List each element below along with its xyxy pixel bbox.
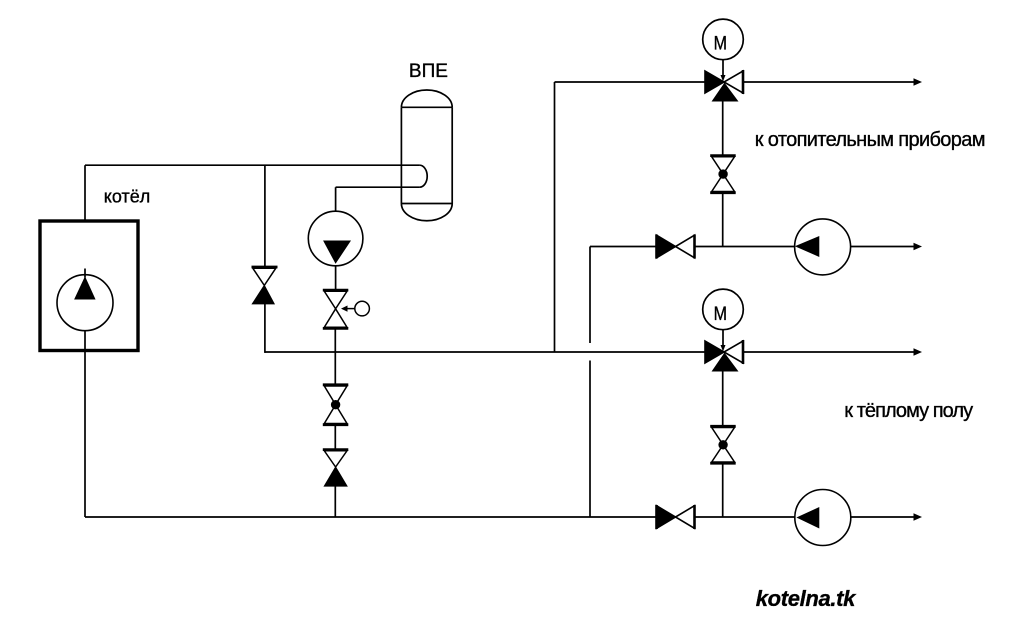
wire: main supply top pipe from boiler to vessel — [85, 164, 420, 166]
pump P3 (circle) — [795, 219, 851, 275]
wire: bottom return row y=517 — [85, 516, 657, 518]
wire: pump branch riser from hook to pump P2 — [335, 187, 337, 211]
balance valve BV2 dot — [718, 440, 727, 449]
wire: branch riser x=265 lower — [264, 304, 266, 353]
pump P4 (circle) — [795, 490, 851, 546]
three-way valve TWV1 right white triangle — [724, 71, 743, 93]
three-way valve TWV2 left black triangle — [705, 341, 724, 363]
boiler "котёл" outline — [40, 221, 138, 351]
arrow head row y=246.5 — [914, 243, 923, 251]
wire: boiler top riser — [84, 165, 86, 220]
wire: riser x=335 from valve through row-352 crossing to dot valve — [334, 328, 336, 384]
check valve CV2 top bar — [323, 448, 349, 451]
three-way valve TWV1 bottom black triangle — [713, 84, 738, 102]
wire: riser from BV2 to bottom row — [722, 463, 724, 517]
motor actuator M1 circle — [703, 19, 744, 60]
wire: riser x=335 to bottom return row — [334, 486, 336, 517]
shutoff valve SV1 dot — [331, 400, 340, 409]
shutoff valve SV3 right bar — [693, 505, 696, 529]
wire: M1 stem — [722, 60, 724, 76]
wire: riser x=554.5 connecting row 352 to top row 82 — [554, 82, 556, 352]
svg-text:ВПЕ: ВПЕ — [409, 61, 448, 82]
three-way valve TWV2 right white triangle — [724, 341, 743, 363]
shutoff valve SV2 black left triangle — [657, 235, 676, 258]
motor actuator M2 circle — [703, 289, 744, 330]
shutoff valve SV3 black left triangle — [657, 506, 676, 529]
regulating valve RV1 bottom bar — [323, 327, 349, 330]
svg-text:kotelna.tk: kotelna.tk — [756, 586, 857, 611]
wire: return row y=246.5 — [590, 246, 657, 248]
check valve CV1 top bar — [252, 266, 278, 269]
regulating valve RV1 actuator circle — [355, 301, 370, 316]
balance valve BV2 lower white triangle — [712, 445, 735, 462]
wire: riser below TWV1 to balance valve BV1 — [722, 101, 724, 156]
regulating valve RV1 top bar — [323, 289, 349, 292]
wire: vessel connection hook (u-turn inside vessel) — [420, 165, 428, 187]
wire: riser x=590 from row 246.5 down (upper segment, gap at row 352) — [589, 247, 591, 344]
check valve CV1 black triangle (up) — [252, 285, 274, 304]
pump P2 (circle) — [308, 211, 363, 266]
balance valve BV2 bottom bar — [710, 462, 736, 465]
pump P4 impeller triangle (left) — [798, 508, 819, 528]
shutoff valve SV1 bottom bar — [323, 423, 349, 426]
wire: stub above pump P1 — [84, 269, 86, 278]
svg-text:к тёплому полу: к тёплому полу — [844, 400, 973, 422]
check valve CV2 white triangle (down) — [324, 451, 347, 467]
wire: riser x=590 lower segment to bottom row — [589, 361, 591, 518]
wire: lower hook pipe to pump branch — [336, 186, 420, 188]
three-way valve TWV1 left black triangle — [705, 71, 724, 93]
shutoff valve SV1 lower white triangle — [324, 405, 347, 424]
wire: below pump P2 — [335, 266, 337, 290]
shutoff valve SV3 left bar — [655, 505, 658, 529]
expansion vessel ВПЕ body — [401, 90, 452, 221]
pump P1 impeller triangle (up) — [75, 277, 95, 299]
wire: boiler bottom drop to return row — [84, 351, 86, 518]
M1 stem arrowhead — [721, 75, 726, 82]
wire: riser x=335 between dot valve and check valve — [334, 425, 336, 450]
svg-text:котёл: котёл — [104, 187, 150, 207]
pump P3 impeller triangle (left) — [796, 237, 819, 257]
check valve CV1 white triangle (down) — [253, 268, 276, 285]
wire: top row y=82 — [555, 81, 706, 83]
svg-text:к отопительным приборам: к отопительным приборам — [755, 129, 985, 151]
balance valve BV1 dot — [718, 169, 727, 178]
shutoff valve SV1 (with dot) top bar — [323, 383, 349, 386]
balance valve BV1 bottom bar — [710, 191, 736, 194]
wire: riser from BV1 to return row y=246.5 — [722, 193, 724, 247]
three-way valve TWV2 right bar — [742, 340, 745, 364]
balance valve BV2 upper white triangle — [712, 428, 735, 445]
pump P2 impeller triangle (down) — [324, 241, 350, 263]
balance valve BV1 upper white triangle — [712, 157, 735, 174]
check valve CV2 black triangle (up) — [324, 467, 347, 486]
arrow head row y=82 — [914, 78, 923, 86]
wire: stub below pump P1 to boiler bottom — [84, 331, 86, 351]
balance valve BV2 top bar — [710, 425, 736, 428]
shutoff valve SV3 white right triangle — [676, 506, 695, 529]
shutoff valve SV1 upper white triangle — [324, 386, 347, 405]
wire: branch riser x=265 upper — [264, 165, 266, 267]
wire: M2 stem — [722, 330, 724, 346]
shutoff valve SV2 white right triangle — [676, 235, 695, 258]
svg-text:M: M — [714, 303, 727, 325]
svg-text:M: M — [714, 32, 727, 54]
shutoff valve SV2 left bar — [655, 235, 658, 259]
M2 stem arrowhead — [721, 345, 726, 352]
wire: riser below TWV2 to balance valve BV2 — [722, 371, 724, 426]
wire: supply row y=352 (from check valve branch to radiator 3-way valve and arrow) — [265, 351, 705, 353]
arrow head row y=517 — [914, 513, 923, 521]
regulating valve RV1 lower white triangle — [324, 309, 347, 327]
three-way valve TWV1 right bar — [742, 70, 745, 94]
balance valve BV1 top bar — [710, 154, 736, 157]
arrow head row y=352 — [914, 348, 923, 356]
regulating valve RV1 actuator arrow — [347, 308, 355, 310]
three-way valve TWV2 bottom black triangle — [713, 354, 738, 372]
pump P1 inside boiler (circle) — [57, 275, 113, 331]
regulating valve RV1 upper white triangle — [324, 291, 347, 309]
shutoff valve SV2 right bar — [693, 235, 696, 259]
balance valve BV1 lower white triangle — [712, 174, 735, 191]
